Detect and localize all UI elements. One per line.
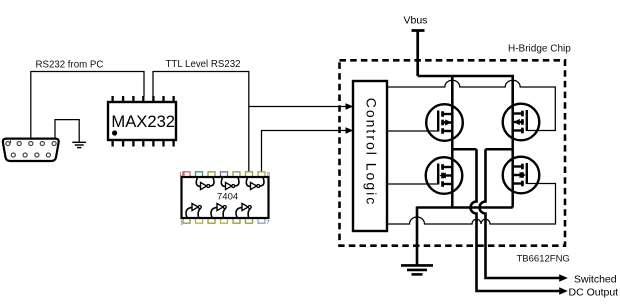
Vbus terminal [412,31,425,77]
inverter gate 6 (bottom row) [236,203,251,217]
svg-text:TB6612FNG: TB6612FNG [517,254,570,265]
wire left midpoint tap to output column 1 [452,148,476,151]
transistor Q4 (bottom-right NMOS, mirrored) [503,157,540,194]
wire low-side source bus [417,206,513,209]
wire output column 2 (right, to Switched) with hop over source bus [480,149,561,278]
arrowhead control logic input 2 [346,127,354,134]
wire gate D: control logic to Q4 gate (hops over ground and output wires) [386,184,556,225]
svg-text:TTL Level RS232: TTL Level RS232 [166,59,241,70]
svg-text:14: 14 [179,172,185,178]
svg-text:Vbus: Vbus [404,15,428,27]
wire left half-bridge channel column (drain-source) [451,109,454,208]
svg-text:RS232 from PC: RS232 from PC [36,60,104,71]
wire RS232: DB9 pin3 up and over to MAX232 pin 4 [31,72,144,144]
wire gate C: control logic to Q3 gate [386,183,438,185]
IC U2 7404 hex inverter [179,172,270,227]
inverter gate 5 (bottom row) [211,203,226,217]
svg-text:7: 7 [267,220,270,226]
transistor Q3 (bottom-left NMOS) [426,157,463,194]
svg-text:1: 1 [180,221,183,227]
svg-text:7404: 7404 [217,192,238,203]
wire DB9 pin5 to ground [55,120,79,144]
arrowhead control logic input 1 [346,103,354,110]
wire gate A: control logic to Q2 gate (over drain wires with hops) [386,80,555,130]
transistor Q2 (top-right NMOS, mirrored) [503,104,540,141]
arrowhead Switched [559,274,568,282]
pads top [183,172,265,177]
ground (H-bridge power ground) [401,265,433,274]
wire right half-bridge channel column (drain-source) [511,109,514,208]
connector J1 DB9 serial [3,139,59,161]
inverter gate 3 (top row) [246,178,264,190]
svg-text:MAX232: MAX232 [111,112,175,131]
body [182,177,269,218]
wire TTL level RS232: MAX232 pin5 up, over, down to 7404 pin-9 pad, with T-branch to control logic input 1 [153,72,346,172]
inverter gate 2 (top row) [221,178,239,190]
arrowhead DC Output [559,287,568,295]
ground (DB9 shell ground) [72,142,86,147]
wire 7404 output (pin 8 pad) up and right to control logic input 2 [262,131,347,172]
control logic block [353,81,387,231]
svg-text:Control Logic: Control Logic [364,98,380,207]
wire gate B: control logic to Q1 gate [386,130,438,132]
IC U1 MAX232 [108,96,176,147]
wire output column 1 (left, to DC Output) with hop over source bus [471,149,561,291]
svg-text:DC Output: DC Output [569,287,619,299]
wire right midpoint tap to output column 2 [486,148,513,151]
pads bottom [183,218,265,223]
inverter gate 4 (bottom row) [186,203,201,217]
inverter gate 1 (top row) [196,178,214,190]
wire ground drop [416,207,419,266]
svg-text:8: 8 [267,172,270,178]
svg-text:H-Bridge Chip: H-Bridge Chip [508,44,571,55]
H-bridge chip boundary (dashed box) [340,60,566,245]
transistor Q1 (top-left NMOS) [426,104,463,141]
wire Vbus rail to high-side drains [418,76,514,110]
svg-text:Switched: Switched [574,274,617,286]
